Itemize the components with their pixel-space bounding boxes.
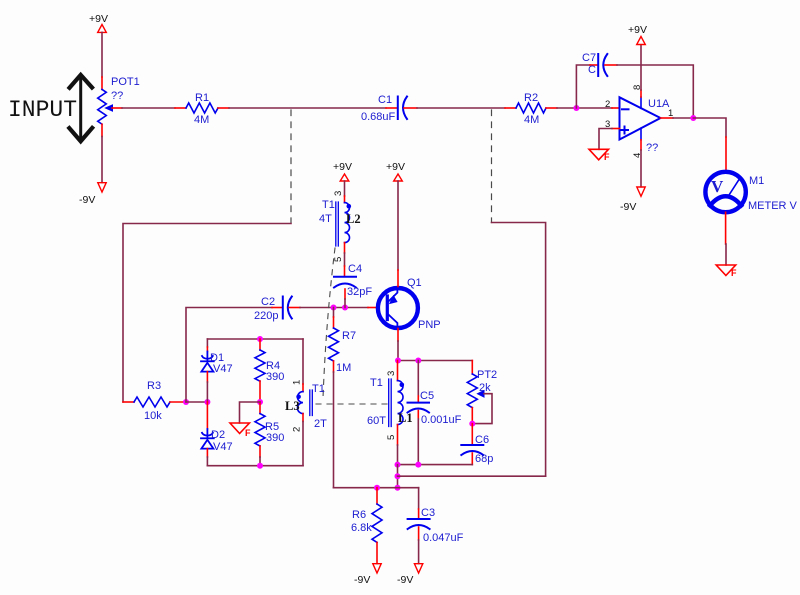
dashed tap left [290, 110, 292, 223]
wire pin 8 to +9V [640, 90, 642, 97]
svg-text:T1: T1 [370, 377, 383, 389]
svg-text:F: F [245, 428, 251, 438]
svg-text:R2: R2 [524, 92, 538, 104]
transistor Q1 [378, 288, 418, 328]
wire C7 to output [605, 64, 617, 66]
ground F mid [230, 423, 251, 438]
svg-text:??: ?? [646, 142, 658, 154]
wire mid to ground [240, 402, 261, 423]
wire L1 bottom [397, 425, 399, 445]
wire tap left to R3 [123, 224, 291, 403]
node base right [342, 305, 348, 311]
svg-text:+9V: +9V [628, 24, 647, 36]
svg-text:F: F [731, 268, 737, 278]
diode D2 [206, 402, 208, 429]
capacitor C1 [398, 97, 407, 120]
svg-text:60T: 60T [367, 415, 386, 427]
node R3 right [183, 399, 189, 405]
-9V power POT1 bottom [79, 183, 106, 206]
wire R1 to C1 [218, 107, 229, 109]
svg-text:V: V [711, 177, 724, 196]
svg-text:C6: C6 [475, 434, 489, 446]
svg-text:C2: C2 [261, 296, 275, 308]
wire box left top [206, 339, 208, 347]
svg-text:PT2: PT2 [477, 369, 497, 381]
dashed coupling horizontal [316, 403, 388, 405]
svg-text:390: 390 [266, 371, 284, 383]
node feedback junction [573, 105, 579, 111]
svg-text:R7: R7 [342, 330, 356, 342]
wire R2 to op-amp pin 2 [546, 107, 557, 109]
capacitor C7 [598, 54, 607, 76]
wire tank to lower rails [397, 465, 399, 488]
node output junction [690, 115, 696, 121]
svg-text:6.8k: 6.8k [351, 522, 372, 534]
+9V power L2 [333, 161, 352, 181]
svg-text:C7: C7 [582, 52, 596, 64]
svg-text:2T: 2T [314, 418, 327, 430]
wire L2 to C4 [344, 243, 346, 253]
wire R3 to D node [186, 401, 207, 403]
svg-text:5: 5 [386, 435, 397, 440]
transformer T1 winding L3 [298, 390, 313, 416]
svg-text:2: 2 [292, 427, 303, 432]
wire C2 to base node [289, 307, 300, 309]
svg-text:T1: T1 [322, 199, 335, 211]
wire pin 3 to ground [612, 128, 620, 130]
wire Q1 collector down [397, 329, 399, 342]
tank bottom rail [398, 464, 473, 466]
transformer T1 winding L1 [397, 361, 399, 381]
svg-text:L2: L2 [346, 212, 361, 226]
svg-text:390: 390 [266, 432, 284, 444]
potentiometer POT1 [98, 89, 113, 124]
svg-text:2: 2 [605, 99, 610, 110]
svg-text:0.68uF: 0.68uF [361, 111, 396, 123]
+9V power POT1 top [89, 13, 108, 32]
svg-text:INPUT: INPUT [8, 97, 77, 123]
svg-text:C: C [588, 64, 596, 76]
dashed tap right [491, 110, 493, 223]
-9V power R6 [354, 564, 381, 586]
wire tap right down [492, 223, 546, 477]
+9V power Q1 [386, 161, 405, 181]
svg-text:Q1: Q1 [407, 277, 422, 289]
transformer T1 winding L2 [336, 202, 350, 246]
meter M1 [705, 172, 745, 212]
input double arrow [69, 75, 92, 141]
wire +9V to Q1 emitter [397, 181, 399, 270]
capacitor C3 [418, 488, 420, 509]
svg-text:4M: 4M [194, 114, 209, 126]
svg-text:T1: T1 [312, 383, 325, 395]
+9V power U1A [628, 24, 647, 45]
resistor R1 [186, 103, 218, 113]
wire feedback rail [398, 475, 546, 477]
wire pin 4 to -9V [640, 140, 642, 150]
svg-text:V47: V47 [213, 441, 233, 453]
node base left [331, 305, 337, 311]
svg-text:D2: D2 [211, 429, 225, 441]
svg-text:-9V: -9V [397, 574, 413, 586]
svg-text:1M: 1M [336, 362, 351, 374]
svg-text:68p: 68p [475, 453, 493, 465]
wire meter to ground [725, 212, 727, 244]
svg-text:METER V: METER V [748, 200, 798, 212]
wire D2 to box bottom [206, 449, 208, 457]
wire feedback up [576, 65, 590, 108]
node D1 D2 mid [204, 399, 210, 405]
svg-text:0.047uF: 0.047uF [423, 532, 464, 544]
wire +9V to POT1 [101, 32, 103, 77]
svg-text:220p: 220p [254, 310, 278, 322]
svg-text:L3: L3 [285, 399, 300, 413]
wire C4 to base node [344, 289, 346, 299]
svg-text:R3: R3 [147, 380, 161, 392]
svg-text:0.001uF: 0.001uF [421, 414, 462, 426]
svg-text:C3: C3 [421, 507, 435, 519]
diode D1 [201, 352, 214, 372]
svg-text:10k: 10k [144, 410, 162, 422]
wire output [661, 117, 674, 119]
svg-text:+9V: +9V [89, 13, 108, 25]
svg-text:??: ?? [111, 90, 123, 102]
resistor R6 [376, 488, 378, 504]
wire bias rail [334, 487, 419, 489]
wire POT1 bottom to -9V [101, 124, 103, 136]
svg-text:32pF: 32pF [347, 286, 372, 298]
wire POT1 wiper to R1 [112, 107, 122, 109]
svg-text:C4: C4 [348, 263, 362, 275]
svg-text:3: 3 [333, 191, 344, 196]
resistor R4 [259, 339, 261, 350]
ground F meter [716, 265, 737, 278]
svg-text:4T: 4T [319, 213, 332, 225]
svg-text:F: F [604, 152, 610, 162]
svg-text:-9V: -9V [79, 194, 95, 206]
svg-text:+9V: +9V [333, 161, 352, 173]
wire D1 to mid node [206, 372, 208, 382]
wire +9V to L2 [344, 181, 346, 196]
box top rail [207, 338, 303, 340]
ground F op-amp [589, 149, 610, 162]
resistor R7 [333, 308, 335, 318]
svg-text:4M: 4M [524, 114, 539, 126]
op-amp U1A [620, 97, 661, 140]
capacitor C6 [471, 424, 473, 445]
resistor R2 [516, 103, 546, 113]
-9V power C3 [397, 564, 423, 586]
svg-text:5: 5 [333, 257, 344, 262]
resistor R5 [259, 402, 261, 414]
svg-text:POT1: POT1 [111, 76, 140, 88]
svg-text:1: 1 [292, 380, 303, 385]
wire box right / L3 top [302, 339, 304, 384]
svg-text:U1A: U1A [648, 98, 670, 110]
wire L3 bottom [302, 414, 304, 422]
svg-text:C1: C1 [378, 94, 392, 106]
svg-text:-9V: -9V [620, 201, 636, 213]
-9V power U1A [620, 187, 645, 213]
dashed coupling curve [323, 248, 335, 398]
node PT2 bottom [469, 421, 475, 427]
svg-text:3: 3 [386, 371, 397, 376]
capacitor C2 [283, 297, 292, 319]
potentiometer PT2 [471, 361, 473, 375]
svg-text:V47: V47 [213, 363, 233, 375]
capacitor C5 [417, 361, 419, 397]
node R4 R5 mid [257, 399, 263, 405]
wire up to C2 [186, 308, 272, 403]
capacitor C4 [334, 277, 356, 288]
wire output to meter [693, 118, 726, 137]
svg-text:PNP: PNP [418, 319, 441, 331]
PT2 wiper arrow [478, 391, 485, 398]
box bottom rail [207, 465, 303, 467]
svg-text:R1: R1 [195, 92, 209, 104]
svg-text:M1: M1 [749, 175, 764, 187]
svg-text:L1: L1 [398, 411, 413, 425]
svg-text:-9V: -9V [354, 574, 370, 586]
wire C1 to R2 [404, 107, 417, 109]
tank top rail [398, 360, 472, 362]
svg-text:C5: C5 [420, 390, 434, 402]
resistor R3 [123, 401, 134, 403]
svg-text:R6: R6 [352, 509, 366, 521]
svg-text:+9V: +9V [386, 161, 405, 173]
